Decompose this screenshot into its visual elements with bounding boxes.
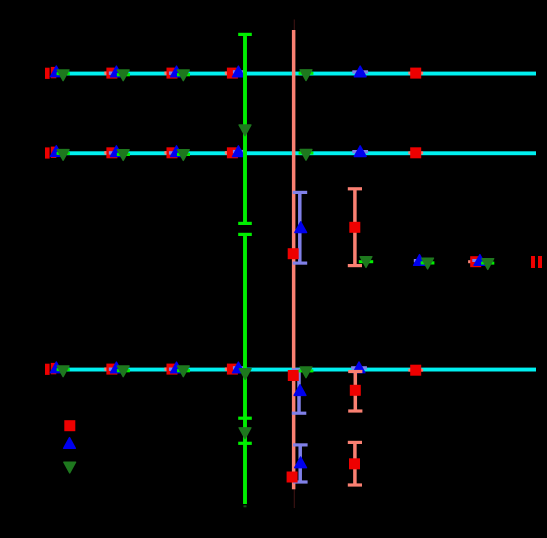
node row2 cluster1 xyxy=(50,146,69,161)
node green tail dot xyxy=(244,505,247,507)
node row2 green single xyxy=(299,150,314,161)
node row2 red single xyxy=(408,147,423,158)
node row2 cluster3 xyxy=(164,146,190,161)
node row2 left red cap xyxy=(45,147,50,158)
node green arrow1 xyxy=(239,125,251,136)
node red square on axvline upper xyxy=(288,248,299,259)
node blue tri on L2 xyxy=(295,457,307,468)
node salmon errorbar S2 xyxy=(348,441,362,487)
node blue tri on lavender upper xyxy=(295,222,307,233)
node legend blue triangle xyxy=(64,438,76,449)
node row3 cluster3 xyxy=(164,362,190,377)
node salmon errorbar upper xyxy=(348,187,362,267)
node row1 cluster2 xyxy=(104,66,130,81)
node row1 left red cap xyxy=(45,68,50,79)
node green arrow2 xyxy=(239,428,251,439)
node mid green single xyxy=(359,257,373,268)
node lavender errorbar upper xyxy=(293,191,308,265)
node red square on salmon upper xyxy=(349,222,360,233)
node row2 cluster2 xyxy=(104,146,130,161)
node lavender errorbar L1 xyxy=(292,368,307,415)
node row1 green single xyxy=(299,70,314,81)
node row3 green single xyxy=(299,367,314,378)
node row3 left red cap xyxy=(45,364,50,375)
node green cap low-b xyxy=(238,442,252,445)
node row1 blue single xyxy=(352,66,368,77)
node row2 cluster4 (no green triangle) xyxy=(225,146,245,159)
node mid blue+green cluster xyxy=(414,255,435,269)
node row1 cluster3 xyxy=(164,66,190,81)
node red square on S2 xyxy=(349,458,360,469)
node row3 cluster4 green tri over line xyxy=(239,369,251,380)
node green cap mid-a xyxy=(238,222,252,225)
node green cap top xyxy=(238,33,252,36)
node row3 cluster2 xyxy=(104,362,130,377)
node row3 cluster4 (green tri drawn later over green line) xyxy=(225,362,245,375)
node red square on axvline low xyxy=(287,472,298,483)
node green cap mid-b xyxy=(238,233,252,236)
wire green vertical lower segment xyxy=(243,234,247,504)
node mid red+blue+green cluster xyxy=(468,255,494,270)
wire salmon vertical xyxy=(292,30,296,489)
wire dark red vertical xyxy=(294,20,295,509)
node row3 cluster1 xyxy=(50,362,69,377)
node row2 blue single xyxy=(352,146,368,157)
node lavender errorbar L2 xyxy=(293,443,308,483)
node salmon errorbar S1 xyxy=(348,370,362,413)
node row3 blue single xyxy=(351,362,367,373)
wire green vertical upper segment xyxy=(243,34,247,224)
node mid right red bar A xyxy=(531,256,535,268)
node legend green triangle xyxy=(64,462,76,473)
node row1 cluster4 (no green triangle) xyxy=(225,66,245,79)
node green cap low-a xyxy=(238,417,252,420)
wire row1 xyxy=(51,72,536,76)
wire row3 xyxy=(51,368,536,372)
node red square on axvline row3 xyxy=(288,370,299,381)
node mid right red bar B xyxy=(538,256,542,268)
node legend red square xyxy=(64,420,75,431)
node row1 red single xyxy=(408,68,423,79)
node row3 red single xyxy=(408,365,423,376)
wire row2 xyxy=(51,151,536,155)
node blue tri on L1 xyxy=(294,385,306,396)
node red square on S1 xyxy=(350,385,361,396)
node row1 cluster1 xyxy=(50,66,69,81)
